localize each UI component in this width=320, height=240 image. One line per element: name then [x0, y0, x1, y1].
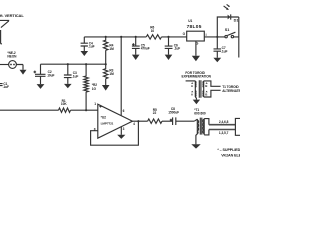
alt transformer right winding [203, 81, 205, 97]
svg-text:1M: 1M [109, 47, 114, 51]
svg-text:1M: 1M [109, 72, 114, 76]
ground (op-amp pin 3) [117, 135, 125, 139]
svg-text:*U2: *U2 [101, 115, 107, 119]
svg-text:LMP7721: LMP7721 [101, 121, 114, 125]
ground (C3) [64, 84, 72, 88]
D1 branch riser and wire [217, 17, 227, 37]
svg-text:.1uF: .1uF [3, 85, 9, 89]
node C7/D1 [216, 36, 218, 38]
phase marks A [191, 82, 193, 92]
capacitor C4 [81, 37, 88, 51]
wire neon to ground [16, 65, 23, 70]
wire R5 to C8 [162, 120, 172, 122]
svg-text:1,3,5,7: 1,3,5,7 [219, 131, 229, 135]
node R4 top [105, 36, 107, 38]
node feedback/output [137, 120, 139, 122]
wire into neon [0, 64, 9, 66]
ground (R3) [102, 85, 110, 91]
svg-text:I: I [206, 33, 207, 37]
transformer T1 secondary [203, 119, 205, 135]
svg-text:4: 4 [133, 122, 135, 126]
capacitor C5 [132, 37, 140, 55]
capacitor C1 (cut at left edge) [0, 84, 3, 86]
node R2 top [85, 63, 87, 65]
svg-text:10K: 10K [61, 102, 67, 106]
svg-text:D1: D1 [234, 19, 239, 23]
svg-text:A: A [191, 84, 194, 88]
svg-text:NEON: NEON [7, 55, 17, 59]
svg-text:B: B [205, 92, 208, 96]
resistor R2 [84, 64, 88, 110]
D1 light arrows [224, 6, 228, 9]
resistor R1 [59, 108, 71, 112]
svg-text:S1: S1 [225, 28, 230, 32]
ground (T1) [191, 144, 200, 148]
svg-text:10: 10 [151, 29, 155, 33]
regulator ground [195, 41, 197, 56]
capacitor C8 [173, 117, 195, 125]
svg-text:3: 3 [123, 127, 125, 131]
op-amp U2 triangle [98, 104, 133, 138]
capacitor C6 [165, 37, 173, 55]
LED D1 [228, 15, 231, 20]
capacitor C7 [214, 37, 222, 58]
capacitor C3 [64, 64, 72, 84]
svg-text:.1uF: .1uF [72, 74, 78, 78]
svg-text:1500uF: 1500uF [168, 111, 179, 115]
svg-text:B: B [205, 84, 208, 88]
node pin6 riser [120, 36, 122, 38]
phase marks B [206, 82, 208, 92]
alt transformer left winding [194, 81, 196, 97]
svg-text:A: A [191, 92, 194, 96]
wire antenna input bus [0, 109, 59, 111]
ground (C7) [213, 58, 221, 63]
alt transformer right routing [204, 81, 221, 97]
svg-text:.1uF: .1uF [88, 45, 94, 49]
alt transformer ground [195, 97, 196, 100]
ground (C5) [132, 55, 140, 60]
right edge supply vertical [238, 17, 240, 58]
top supply rail [84, 36, 239, 38]
plus input marker [99, 105, 101, 107]
op-amp V+ riser pin 6 [120, 37, 122, 116]
ground (neon) [20, 70, 27, 75]
capacitor C2 [35, 64, 46, 84]
neon lamp NE-2 [9, 61, 17, 69]
node C3 [67, 63, 69, 65]
svg-text:VK2AN ELEC: VK2AN ELEC [221, 154, 240, 158]
svg-text:U1: U1 [188, 19, 192, 23]
node C6 [167, 36, 169, 38]
svg-text:6: 6 [123, 109, 125, 113]
alternate toroid transformer stub [186, 80, 196, 82]
svg-text:78L05: 78L05 [187, 24, 202, 30]
svg-text:2,4,6,8: 2,4,6,8 [219, 120, 229, 124]
T1 core [200, 118, 202, 135]
resistor R4 [104, 37, 108, 64]
T1 primary ground [196, 134, 197, 145]
svg-text:ft. VERTICAL: ft. VERTICAL [0, 13, 24, 18]
ground (C6) [165, 55, 173, 60]
node R4/R3 [105, 63, 107, 65]
svg-text:O: O [183, 32, 186, 36]
ground (alt toroid) [193, 100, 200, 105]
resistor R3 [104, 64, 108, 85]
phones wires [209, 125, 236, 130]
resistor R5 [148, 119, 162, 123]
svg-text:470uF: 470uF [141, 47, 150, 51]
svg-text:10uF: 10uF [47, 74, 54, 78]
antenna symbol [0, 20, 9, 27]
pin 3 ground stem [120, 127, 122, 135]
antenna lead-in stub (cut at edge) [1, 30, 2, 44]
T1 secondary stubs [204, 119, 209, 135]
S1 lever [227, 32, 235, 35]
svg-text:22: 22 [153, 111, 157, 115]
svg-text:* – SUPPLIED: * – SUPPLIED [217, 148, 240, 152]
bias rail [41, 63, 106, 65]
ground (C4) [81, 51, 89, 56]
svg-text:600:600: 600:600 [194, 112, 206, 116]
svg-text:ALTERNATE: ALTERNATE [222, 89, 240, 93]
transformer T1 primary [194, 119, 197, 134]
node C5 [135, 36, 137, 38]
svg-text:EXPERIMENTATION: EXPERIMENTATION [182, 75, 212, 79]
resistor R6 [146, 35, 161, 39]
wire R1 to op-amp input [71, 109, 98, 111]
phones box (cut at edge) [235, 118, 240, 135]
svg-text:.1uF: .1uF [174, 47, 180, 51]
alt transformer core [199, 80, 201, 98]
ground (C2) [37, 84, 45, 89]
svg-text:1: 1 [94, 102, 96, 106]
svg-text:.1uF: .1uF [221, 49, 227, 53]
feedback loop wire [91, 121, 139, 145]
node (R2 junction on input) [85, 109, 87, 111]
svg-text:1G: 1G [92, 87, 97, 91]
output wire [132, 120, 147, 122]
